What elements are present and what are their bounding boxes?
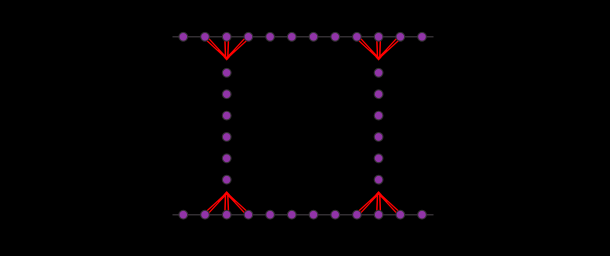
coupling fan top-left [207,39,246,58]
coupling fan top-right [359,39,398,58]
node B6 [287,210,296,219]
node L5 [222,154,231,163]
node L1 [222,68,231,77]
node T8 [331,32,340,41]
node R2 [374,90,383,99]
node T7 [309,32,318,41]
arrowhead of fan bottom-right [371,193,387,201]
node B3 [222,210,231,219]
node B2 [201,210,210,219]
node T1 [179,32,188,41]
node T3 [222,32,231,41]
node R5 [374,154,383,163]
node R4 [374,133,383,142]
coupling fan bottom-right [359,194,397,213]
node T6 [287,32,296,41]
node B1 [179,210,188,219]
node R3 [374,111,383,120]
node B7 [309,210,318,219]
arrowhead of fan top-right [371,51,387,59]
node L3 [222,111,231,120]
node T9 [353,32,362,41]
node T12 [418,32,427,41]
node B11 [396,210,405,219]
node R6 [374,175,383,184]
node B8 [331,210,340,219]
arrowhead of fan top-left [219,51,235,59]
coupling fan bottom-left [208,194,246,213]
node B5 [266,210,275,219]
node T4 [244,32,253,41]
node B12 [418,210,427,219]
wire: bottom chain line [173,214,434,216]
node B4 [244,210,253,219]
node L4 [222,133,231,142]
node T2 [201,32,210,41]
node T10 [374,32,383,41]
node R1 [374,68,383,77]
node B9 [353,210,362,219]
wire: top chain line [173,36,434,38]
node L2 [222,90,231,99]
arrowhead of fan bottom-left [219,193,235,201]
node L6 [222,175,231,184]
node B10 [374,210,383,219]
node T11 [396,32,405,41]
node T5 [266,32,275,41]
